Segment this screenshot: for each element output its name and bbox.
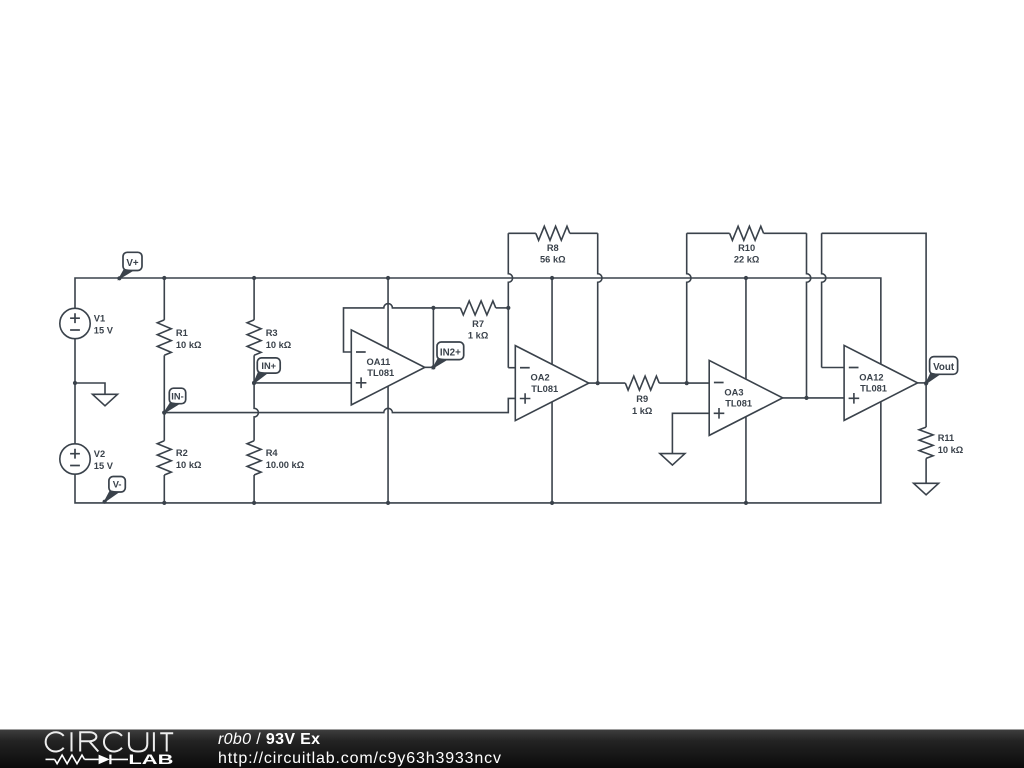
svg-text:22 kΩ: 22 kΩ: [734, 255, 760, 265]
svg-text:OA12: OA12: [859, 373, 883, 383]
svg-text:15 V: 15 V: [94, 325, 114, 335]
svg-text:1 kΩ: 1 kΩ: [468, 331, 489, 341]
svg-text:TL081: TL081: [725, 399, 752, 409]
svg-text:Vout: Vout: [933, 362, 955, 373]
svg-text:1 kΩ: 1 kΩ: [632, 406, 653, 416]
svg-text:IN+: IN+: [261, 361, 276, 371]
svg-text:http://circuitlab.com/c9y63h39: http://circuitlab.com/c9y63h3933ncv: [218, 750, 501, 767]
svg-text:TL081: TL081: [531, 384, 558, 394]
svg-text:10 kΩ: 10 kΩ: [176, 460, 202, 470]
svg-text:V-: V-: [113, 480, 122, 490]
svg-text:V2: V2: [94, 449, 105, 459]
svg-text:R7: R7: [472, 319, 484, 329]
svg-text:R3: R3: [266, 328, 278, 338]
svg-text:OA2: OA2: [531, 373, 550, 383]
svg-text:IN2+: IN2+: [440, 347, 461, 358]
svg-text:15 V: 15 V: [94, 461, 114, 471]
svg-text:r0b0 / 93V Ex: r0b0 / 93V Ex: [218, 731, 320, 748]
svg-text:IN-: IN-: [171, 391, 183, 401]
svg-text:R9: R9: [636, 394, 648, 404]
svg-text:10 kΩ: 10 kΩ: [266, 340, 292, 350]
svg-text:OA3: OA3: [724, 388, 743, 398]
svg-text:56 kΩ: 56 kΩ: [540, 255, 566, 265]
svg-text:R1: R1: [176, 328, 188, 338]
svg-text:10 kΩ: 10 kΩ: [176, 340, 202, 350]
svg-text:R2: R2: [176, 448, 188, 458]
svg-text:V1: V1: [94, 314, 105, 324]
svg-text:LAB: LAB: [128, 751, 173, 767]
svg-text:TL081: TL081: [367, 368, 394, 378]
svg-text:TL081: TL081: [860, 384, 887, 394]
svg-text:R4: R4: [266, 448, 279, 458]
svg-text:R11: R11: [938, 433, 955, 443]
svg-text:R10: R10: [738, 243, 755, 253]
svg-text:R8: R8: [547, 243, 559, 253]
svg-text:V+: V+: [126, 258, 139, 269]
svg-text:OA11: OA11: [367, 357, 391, 367]
svg-text:10.00 kΩ: 10.00 kΩ: [266, 460, 305, 470]
svg-text:10 kΩ: 10 kΩ: [938, 445, 964, 455]
